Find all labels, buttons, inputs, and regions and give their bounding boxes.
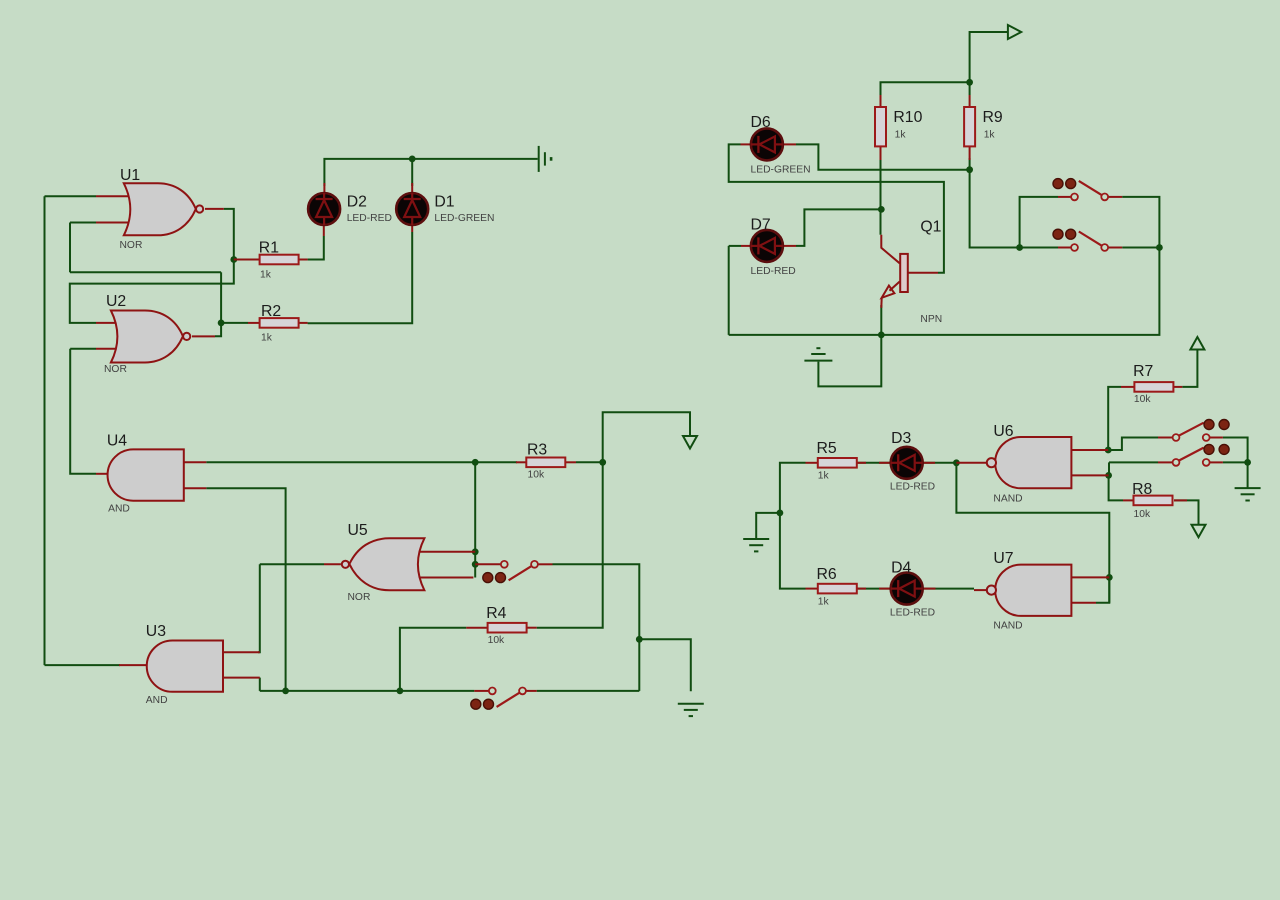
svg-text:R7: R7 — [1133, 363, 1153, 380]
svg-text:1k: 1k — [261, 333, 273, 344]
pin U5 in2 — [413, 577, 473, 579]
nand gate U7 (mirrored) — [995, 565, 1071, 616]
wire D7 left stub — [729, 245, 741, 247]
wire R1 node down-left to U2 input1 — [70, 260, 234, 323]
wire R9 bottom to node — [969, 158, 971, 170]
wire cross-couple horizontal — [70, 271, 221, 273]
power arrow top-right — [1008, 25, 1021, 39]
ground battery-style near Q1 — [804, 360, 832, 362]
pin R8 — [1123, 499, 1134, 501]
junction R4 branch — [397, 688, 404, 695]
wire R5 left leg — [780, 463, 806, 513]
wire R9 top leg — [969, 82, 971, 95]
wire D7 left drop — [728, 246, 730, 335]
pin U6 in1 — [1071, 449, 1108, 451]
svg-text:AND: AND — [146, 695, 168, 706]
wire emitter node to battery ground — [818, 335, 881, 387]
pin Q1 base — [908, 272, 938, 274]
pin R6 — [806, 588, 818, 590]
wire SW5 right leg — [1223, 438, 1248, 463]
junction R9 bottom — [966, 166, 973, 173]
power rail symbol top-left — [538, 146, 540, 172]
svg-text:NOR: NOR — [120, 240, 143, 251]
wire node down to bottom line — [638, 639, 640, 691]
pin U1 in1 — [96, 195, 137, 197]
pin D1 bottom — [411, 225, 413, 232]
wire D6 left to Q1 base — [729, 144, 944, 272]
junction ground R5R6 — [777, 510, 784, 517]
pin R2 right — [299, 322, 308, 324]
svg-text:NAND: NAND — [993, 620, 1022, 631]
pin U3 in1 — [223, 651, 260, 653]
pin D3 right — [922, 462, 935, 464]
resistor R1 — [260, 255, 299, 265]
svg-text:R9: R9 — [983, 109, 1003, 126]
wire U2 output to node — [215, 323, 221, 336]
pin U1 out — [205, 208, 224, 210]
pin R4 — [466, 627, 487, 629]
pin R9 top — [969, 95, 971, 107]
svg-text:LED-RED: LED-RED — [751, 266, 796, 277]
wire R6 to D4 — [856, 588, 891, 590]
pin D2 top — [323, 183, 325, 193]
wire SW4 right to node — [1122, 247, 1159, 249]
pin R10 bottom — [880, 146, 882, 160]
junction U4 in2 branch — [282, 688, 289, 695]
pin U4 in1 — [184, 461, 207, 463]
junction U6 output node — [953, 459, 960, 466]
wire rail to U3 output — [45, 664, 121, 666]
switch SW3 — [1071, 194, 1078, 201]
wire switch node up to SW3 — [1020, 197, 1058, 248]
wire Q1 emitter to line — [880, 305, 882, 335]
pin D3 left — [879, 462, 891, 464]
junction U5 in1 — [472, 548, 479, 555]
svg-text:NOR: NOR — [348, 592, 371, 603]
svg-text:R1: R1 — [259, 240, 279, 257]
junction D1 supply — [409, 156, 416, 163]
svg-text:D2: D2 — [347, 194, 367, 211]
wire U5 inputs vertical — [474, 462, 476, 577]
junction U7 in1 — [1106, 574, 1113, 581]
pin U3 out — [119, 664, 148, 666]
wire R7 right to power arrow — [1182, 350, 1197, 387]
junction SW1 line — [472, 561, 479, 568]
switch SW4 — [1071, 244, 1078, 251]
wire ground to R5 R6 node — [756, 513, 780, 539]
led D7 — [751, 230, 783, 262]
pin R10 top — [880, 95, 882, 107]
wire U6 in1 up to R7 — [1108, 387, 1121, 450]
wire SW6 line — [1109, 461, 1158, 463]
switch SW2 — [489, 688, 496, 695]
svg-text:D3: D3 — [891, 430, 911, 447]
pin D6 left — [741, 143, 753, 145]
pin U1 in2 — [96, 222, 137, 224]
wire D1 top drop — [411, 159, 413, 186]
svg-text:NPN: NPN — [920, 314, 942, 325]
svg-text:10k: 10k — [1134, 509, 1151, 520]
svg-text:R3: R3 — [527, 442, 547, 459]
wire U6 in1 jog to SW5 — [1108, 438, 1158, 451]
pin SW4 — [1058, 247, 1071, 249]
resistor R3 — [526, 458, 565, 468]
power arrow down R8 — [1192, 525, 1206, 538]
switch SW5 — [1173, 434, 1180, 441]
switch SW6 — [1173, 459, 1180, 466]
pin D2 bottom — [323, 225, 325, 236]
power arrow up R7 — [1190, 337, 1204, 350]
wire U1 input2 — [70, 222, 96, 224]
pin D7 left — [741, 245, 752, 247]
wire supply node to R10 — [881, 82, 970, 96]
pin D7 right — [782, 245, 796, 247]
junction SW4 left — [1016, 244, 1023, 251]
wire SW6 jog to U6 in2 — [1108, 462, 1110, 475]
pin U5 out — [324, 563, 341, 565]
pin SW1 — [475, 563, 501, 565]
wire right node down to emitter line — [729, 248, 1160, 335]
nor gate U5 (mirrored) — [349, 538, 424, 590]
pin U2 out — [192, 335, 215, 337]
junction right ground — [1244, 459, 1251, 466]
wire left feedback rail — [44, 196, 46, 665]
wire U5 output — [260, 563, 324, 565]
wire R9 node down to switches — [970, 170, 1020, 248]
pin SW3 — [1058, 196, 1071, 198]
svg-text:1k: 1k — [984, 129, 996, 140]
svg-text:R5: R5 — [817, 440, 837, 457]
svg-text:1k: 1k — [818, 471, 830, 482]
wire R8 right to power arrow — [1174, 500, 1199, 524]
nand gate U6 (mirrored) — [995, 437, 1071, 488]
pin R5 — [806, 462, 818, 464]
pin U6 in2 — [1071, 474, 1108, 476]
wire D6 right to R9 node — [796, 144, 970, 169]
pin SW2 — [474, 690, 489, 692]
led D3 — [891, 447, 923, 479]
junction R3 right — [599, 459, 606, 466]
wire R2 node to R2 — [221, 322, 248, 324]
pin U7 in1 — [1071, 576, 1109, 578]
svg-text:U1: U1 — [120, 167, 140, 184]
resistor R5 — [818, 458, 857, 468]
svg-text:D4: D4 — [891, 560, 911, 577]
wire U2 input2 — [70, 348, 96, 350]
wire D1 bottom to R2 — [308, 232, 413, 323]
wire ground node drop — [1247, 462, 1249, 488]
pin R3 — [516, 461, 526, 463]
pin Q1 collector — [881, 235, 899, 264]
pin U2 in2 — [96, 348, 125, 350]
wire R4 left leg — [400, 628, 466, 691]
and gate U3 (mirrored) — [147, 641, 223, 692]
ground right of switches — [1235, 487, 1261, 489]
and gate U4 (mirrored) — [108, 449, 184, 500]
pin R1 right — [299, 259, 308, 261]
wire R1 node to R1 — [234, 259, 250, 261]
ground mid-left — [678, 703, 704, 705]
wire U6 output node to U7 inputs — [956, 463, 1109, 603]
switch SW1 — [501, 561, 508, 568]
wire R3 node down to R4 — [537, 462, 603, 627]
svg-text:10k: 10k — [488, 635, 505, 646]
svg-text:R6: R6 — [817, 566, 837, 583]
wire D7 right to collector node — [796, 209, 881, 246]
svg-text:D1: D1 — [434, 194, 454, 211]
led D4 — [891, 573, 923, 605]
pin R7 — [1121, 386, 1134, 388]
wire down to node Q2bar — [220, 272, 222, 323]
svg-text:U7: U7 — [993, 550, 1013, 567]
pin U3 in2 — [223, 677, 260, 679]
svg-text:NOR: NOR — [104, 364, 127, 375]
svg-text:LED-GREEN: LED-GREEN — [434, 213, 494, 224]
svg-text:U2: U2 — [106, 293, 126, 310]
wire switch SW1 right to node — [553, 564, 640, 639]
wire top power arrow drop — [970, 32, 1008, 82]
svg-text:LED-RED: LED-RED — [347, 213, 392, 224]
wire node to ground right — [639, 639, 691, 691]
wire R3 right to node — [576, 461, 603, 463]
pin SW6 — [1158, 461, 1173, 463]
svg-text:R8: R8 — [1132, 481, 1152, 498]
junction supply rail — [966, 79, 973, 86]
pin SW5 — [1158, 437, 1173, 439]
wire SW4 left leg — [1020, 247, 1058, 249]
wire U6 in2 down to R8 — [1109, 475, 1123, 500]
nor gate U1 — [124, 183, 196, 235]
svg-text:D6: D6 — [751, 114, 771, 131]
wire U1 input1 from left rail — [45, 195, 97, 197]
svg-text:10k: 10k — [528, 470, 545, 481]
wire U4 input2 down — [206, 488, 285, 691]
junction SW4 right — [1156, 244, 1163, 251]
wire U5 output down to U3 input1 — [258, 564, 260, 652]
svg-text:AND: AND — [108, 504, 130, 515]
svg-text:Q1: Q1 — [920, 219, 941, 236]
svg-text:1k: 1k — [818, 597, 830, 608]
wire U2.in2 vertical to U4 output — [70, 349, 96, 474]
wire R3 node to power arrow — [603, 412, 690, 462]
svg-text:1k: 1k — [260, 270, 272, 281]
junction R3 left — [472, 459, 479, 466]
svg-text:LED-GREEN: LED-GREEN — [751, 165, 811, 176]
svg-text:R2: R2 — [261, 303, 281, 320]
svg-text:NAND: NAND — [993, 493, 1022, 504]
wire U3 input2 drop — [259, 678, 261, 691]
junction ground branch — [636, 636, 643, 643]
svg-text:LED-RED: LED-RED — [890, 482, 935, 493]
pin U4 out — [96, 473, 110, 475]
svg-text:1k: 1k — [895, 129, 907, 140]
junction U6 in2 — [1105, 472, 1112, 479]
svg-text:U5: U5 — [348, 522, 368, 539]
pin Q1 emitter — [890, 282, 900, 291]
svg-text:R4: R4 — [486, 605, 506, 622]
svg-text:U3: U3 — [146, 623, 166, 640]
svg-text:D7: D7 — [751, 216, 771, 233]
wire U1.in2 vertical — [69, 223, 71, 273]
wire R5 to D3 — [856, 462, 891, 464]
resistor R2 — [260, 318, 299, 328]
resistor R10 — [875, 107, 886, 146]
wire SW3 right to corner — [1122, 197, 1159, 248]
pin U4 in2 — [184, 487, 207, 489]
pin R2 left — [248, 322, 260, 324]
transistor Q1 emitter arrow — [882, 286, 895, 298]
ground left of R5 — [743, 538, 769, 540]
svg-text:U6: U6 — [993, 423, 1013, 440]
wire node down to R6 — [780, 513, 806, 589]
pin D1 top — [411, 183, 413, 193]
junction emitter line — [878, 332, 885, 339]
wire U4 input1 to R3 — [206, 461, 517, 463]
junction U6 in1 — [1105, 447, 1112, 454]
wire D4 to U7 output — [923, 588, 974, 590]
wire bottom line left — [260, 690, 475, 692]
pin U7 out — [974, 589, 987, 591]
pin D6 right — [782, 143, 796, 145]
wire U1 output to R1 node — [224, 209, 234, 260]
svg-text:U4: U4 — [107, 433, 127, 450]
pin U2 in1 — [96, 322, 125, 324]
pin U6 out — [956, 462, 987, 464]
pin D4 right — [922, 588, 936, 590]
pin R1 left — [234, 259, 260, 261]
junction R1 node — [230, 256, 237, 263]
wire bottom line right — [537, 690, 640, 692]
wire U7 inputs vertical tail — [1108, 577, 1110, 602]
wire D3 to U6 node — [923, 462, 956, 464]
svg-text:LED-RED: LED-RED — [890, 608, 935, 619]
transistor Q1 body — [900, 254, 908, 292]
power arrow down mid — [683, 436, 697, 449]
resistor R9 — [964, 107, 975, 146]
wire D2 top to supply — [324, 159, 537, 186]
junction collector node — [878, 206, 885, 213]
svg-text:10k: 10k — [1134, 394, 1151, 405]
wire R10 bottom to collector node — [880, 158, 882, 235]
svg-text:R10: R10 — [893, 109, 922, 126]
led D2 — [308, 193, 340, 225]
led D6 — [751, 128, 783, 160]
pin U7 in2 — [1071, 602, 1096, 604]
resistor R8 — [1134, 496, 1173, 506]
resistor R4 — [488, 623, 527, 633]
led D1 — [396, 193, 428, 225]
nor gate U2 — [111, 311, 183, 363]
wire SW6 right to ground node — [1223, 461, 1248, 463]
resistor R6 — [818, 584, 857, 594]
junction R2 node — [218, 320, 225, 327]
wire R1 to D2 — [308, 236, 324, 260]
pin U5 in1 — [413, 551, 475, 553]
pin R9 bottom — [969, 146, 971, 160]
pin D4 left — [879, 588, 891, 590]
resistor R7 — [1134, 382, 1173, 392]
